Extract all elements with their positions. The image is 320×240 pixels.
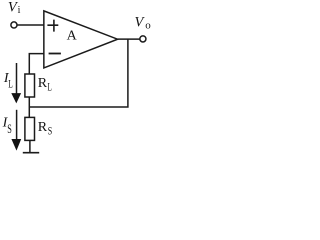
svg-text:S: S [7, 123, 12, 136]
svg-text:o: o [145, 19, 151, 31]
svg-text:i: i [18, 5, 21, 16]
svg-text:R: R [38, 76, 48, 91]
svg-text:L: L [8, 78, 13, 91]
svg-text:L: L [48, 81, 52, 94]
svg-text:S: S [48, 125, 52, 138]
svg-text:R: R [38, 120, 48, 135]
svg-text:A: A [67, 28, 78, 43]
svg-text:V: V [135, 14, 146, 30]
